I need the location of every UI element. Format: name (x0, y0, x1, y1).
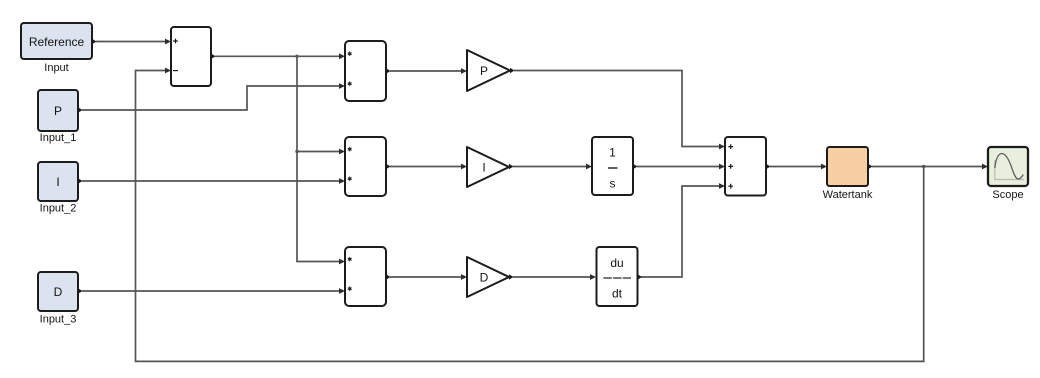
block Watertank (827, 147, 868, 186)
integrator block 1/s (592, 137, 633, 195)
svg-text:I: I (56, 175, 59, 189)
block Reference (Input) (21, 23, 92, 59)
svg-text:I: I (482, 161, 485, 175)
product block Product1 (345, 41, 386, 101)
svg-text:Watertank: Watertank (823, 189, 873, 201)
output port gain D (509, 274, 514, 280)
wire Gain D to Derivative (513, 274, 596, 280)
junction error branch at Product1 row (295, 55, 298, 58)
wire Derivative to Sum3 input 3 (641, 183, 725, 277)
product block Product2 (345, 137, 386, 196)
output port Product1 (386, 68, 391, 74)
wire I input block to Product2 input 2 (82, 178, 345, 184)
wire D input block to Product3 input 2 (82, 288, 345, 294)
svg-text:1: 1 (609, 146, 616, 160)
block Scope (988, 147, 1028, 186)
wire error branch vertical to Product3 input 1 (297, 152, 345, 265)
svg-text:D: D (54, 285, 63, 299)
output port Watertank (868, 164, 873, 170)
block I (Input_2) (38, 162, 78, 201)
wire Watertank to Scope (872, 164, 988, 170)
output port integrator (633, 164, 638, 170)
output port Sum1 (211, 54, 216, 60)
output port I input block (78, 178, 83, 184)
svg-text:Input_3: Input_3 (40, 314, 77, 326)
svg-text:Input_1: Input_1 (40, 132, 77, 144)
output port derivative (638, 274, 643, 280)
output port D input block (78, 288, 83, 294)
svg-text:P: P (480, 64, 488, 78)
svg-text:P: P (54, 104, 62, 118)
wire Product3 output to Gain D (390, 274, 467, 280)
wire Product1 output to Gain P (390, 68, 467, 74)
output port Reference (92, 39, 97, 45)
wire Gain I to Integrator (513, 164, 592, 170)
svg-text:Scope: Scope (992, 189, 1023, 201)
output port gain I (509, 164, 514, 170)
derivative block du/dt (597, 247, 638, 306)
wire P input block to Product1 input 2 (82, 83, 345, 110)
sum block Sum3 (add) (725, 137, 766, 196)
product block Product3 (345, 247, 386, 306)
svg-text:Reference: Reference (29, 35, 85, 49)
svg-text:dt: dt (612, 286, 623, 300)
output port Product3 (386, 274, 391, 280)
junction at watertank output branch (922, 165, 925, 168)
wire error branch vertical to Product2 input 1 (297, 56, 345, 154)
wire feedback: branch at watertank output down, left, up into Sum1 minus input (136, 68, 924, 362)
block P (Input_1) (38, 90, 78, 131)
wire Reference to Sum1 plus input (96, 39, 171, 45)
svg-text:D: D (480, 271, 489, 285)
output port Sum3 (766, 164, 771, 170)
gain block D (467, 257, 509, 297)
output port P input block (78, 107, 83, 113)
wire Sum1 output to Product1 input 1 (215, 53, 345, 59)
output port Product2 (386, 164, 391, 170)
svg-text:du: du (610, 256, 623, 270)
gain block I (467, 147, 509, 187)
svg-text:Input: Input (44, 62, 68, 74)
output port gain P (510, 68, 515, 74)
gain block P (467, 50, 510, 91)
sum block Sum1 (subtract) (171, 27, 211, 86)
svg-text:s: s (610, 177, 616, 191)
svg-text:Input_2: Input_2 (40, 203, 77, 215)
wire Gain P to Sum3 input 1 (514, 71, 725, 150)
wire Integrator to Sum3 input 2 (637, 164, 725, 170)
wire Product2 output to Gain I (390, 164, 467, 170)
block D (Input_3) (38, 272, 78, 311)
junction error branch at Product2 row (295, 150, 298, 153)
wire Sum3 output to Watertank (770, 164, 827, 170)
